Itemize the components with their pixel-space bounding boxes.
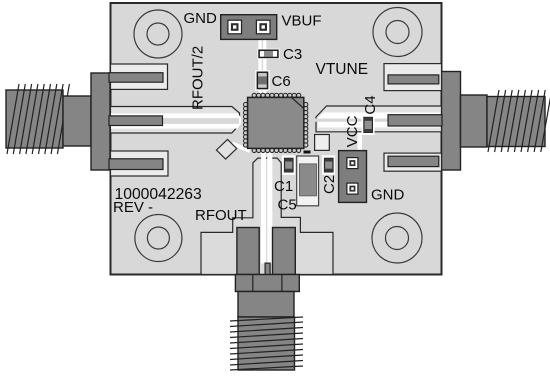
connector J2 right SMA threads: [487, 90, 550, 152]
RFOUT trace white gap left: [261, 152, 266, 264]
capacitor C6: [255, 70, 269, 90]
header J3 (GND/VBUF): [221, 15, 277, 40]
connector J2 right SMA flange: [442, 72, 461, 171]
svg-text:RFOUT: RFOUT: [195, 207, 247, 224]
VBUF trace from header to chip: [258, 39, 266, 94]
board outline: [111, 3, 442, 275]
bottom SMA left leg: [237, 228, 259, 275]
right top ground pad keepout: [384, 64, 442, 91]
RFOUT trace white gap right: [267, 152, 272, 264]
bottom SMA right leg: [273, 228, 296, 275]
svg-text:C5: C5: [278, 197, 297, 214]
diamond pad: [216, 140, 250, 160]
VTUNE trace keepout region: [316, 106, 442, 132]
VTUNE trace white gap: [318, 113, 440, 128]
left bottom ground pad keepout: [111, 151, 169, 176]
capacitor C2: [322, 155, 335, 174]
svg-text:RFOUT/2: RFOUT/2: [190, 46, 207, 110]
svg-text:C6: C6: [272, 73, 291, 90]
mounting hole bottom-right: [372, 213, 422, 263]
connector J2 right SMA neck: [461, 95, 488, 147]
polarity mark near C1: [304, 151, 311, 154]
svg-text:GND: GND: [184, 10, 218, 27]
RFOUT/2 trace center conductor: [111, 118, 239, 124]
capacitor C3: [258, 49, 280, 59]
connector J1 left SMA threads: [6, 84, 69, 154]
VCC trace from header to C4: [358, 133, 363, 151]
svg-text:C1: C1: [274, 178, 293, 195]
left top ground pad: [109, 73, 163, 83]
right bottom ground pad keepout: [384, 153, 442, 171]
right SMA center pin: [388, 115, 442, 126]
op-amp U1 QFN body: [244, 93, 308, 152]
mounting hole bottom-left: [135, 215, 182, 262]
bottom SMA hex nut: [235, 275, 299, 292]
RFOUT/2 trace white gaps: [111, 113, 238, 128]
right top ground pad: [388, 75, 439, 84]
bottom SMA threads: [230, 317, 303, 370]
RFOUT/2 trace taper tip: [237, 113, 241, 128]
VBUF trace center conductor: [262, 39, 263, 94]
connector J1 left SMA flange: [91, 73, 110, 170]
svg-text:C3: C3: [283, 46, 302, 63]
left bottom ground pad: [109, 159, 163, 170]
left top ground pad keepout: [111, 64, 168, 89]
header J4 (VCC/GND): [339, 151, 367, 203]
svg-text:VCC: VCC: [344, 115, 361, 147]
left SMA center pin: [109, 116, 163, 126]
mounting hole top-right: [373, 8, 422, 57]
capacitor C4: [362, 115, 375, 135]
svg-text:GND: GND: [371, 186, 405, 203]
RFOUT channel keepout region: [201, 158, 333, 274]
VTUNE trace center conductor: [310, 119, 440, 122]
mounting hole top-left: [134, 10, 182, 58]
connector J1 left SMA neck: [63, 96, 91, 146]
svg-text:C4: C4: [362, 95, 379, 114]
small pad below VTUNE trace: [315, 135, 330, 151]
bottom SMA center pin: [265, 263, 270, 276]
svg-text:VBUF: VBUF: [282, 13, 322, 30]
capacitor C1: [282, 155, 295, 174]
svg-text:VTUNE: VTUNE: [316, 61, 369, 78]
bottom SMA barrel: [238, 292, 294, 318]
right bottom ground pad: [388, 156, 439, 166]
svg-text:REV -: REV -: [113, 199, 153, 216]
inductor L1 near C5: [297, 156, 319, 206]
svg-text:C2: C2: [321, 175, 338, 194]
RFOUT/2 trace keepout region: [111, 107, 240, 134]
